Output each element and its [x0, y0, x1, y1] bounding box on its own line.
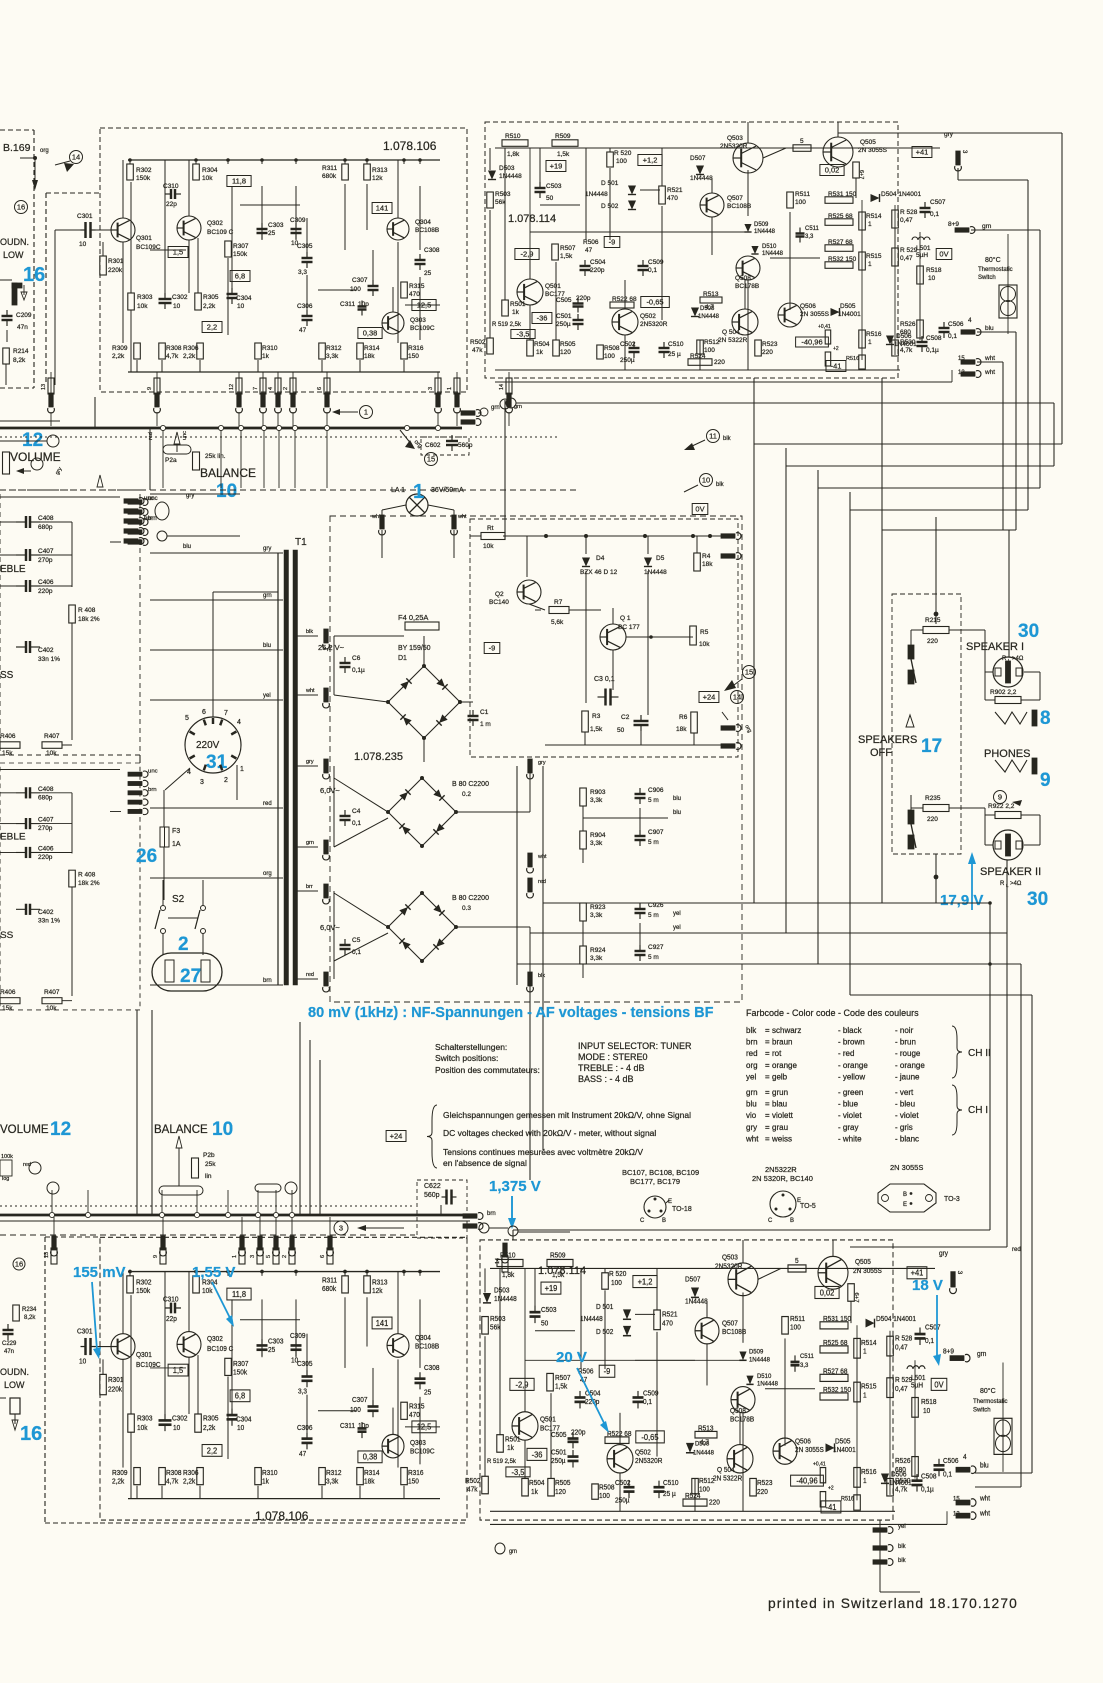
svg-text:R: R	[1000, 881, 1005, 887]
svg-text:R507: R507	[560, 245, 576, 252]
svg-text:250µ: 250µ	[551, 1458, 566, 1465]
svg-text:250µ: 250µ	[615, 1497, 630, 1504]
svg-text:C301: C301	[77, 213, 93, 220]
svg-text:R4: R4	[702, 553, 711, 560]
svg-text:C308: C308	[424, 1365, 440, 1372]
svg-text:grau: grau	[772, 1123, 788, 1132]
svg-text:- blanc: - blanc	[895, 1134, 919, 1143]
svg-text:2N 5322R: 2N 5322R	[713, 1475, 742, 1482]
svg-text:1: 1	[863, 1478, 867, 1485]
svg-text:- jaune: - jaune	[895, 1072, 920, 1081]
svg-text:C301: C301	[77, 1329, 93, 1336]
svg-text:VOLUME: VOLUME	[10, 450, 61, 464]
svg-text:Q 1: Q 1	[620, 615, 631, 622]
svg-text:R924: R924	[590, 947, 606, 954]
svg-text:8,2k: 8,2k	[24, 1315, 36, 1321]
svg-text:8,2k: 8,2k	[13, 357, 26, 364]
svg-text:C311: C311	[340, 1423, 355, 1430]
svg-text:+19: +19	[545, 1284, 558, 1293]
svg-text:15k: 15k	[2, 750, 13, 757]
svg-text:1,5: 1,5	[173, 248, 183, 257]
svg-text:150k: 150k	[136, 175, 151, 182]
svg-text:R 519 2,5k: R 519 2,5k	[492, 322, 522, 328]
svg-text:+0,41: +0,41	[818, 324, 831, 330]
svg-text:wht: wht	[745, 1134, 759, 1143]
svg-text:560p: 560p	[458, 442, 473, 449]
svg-text:0,47: 0,47	[895, 1386, 908, 1393]
svg-text:R516: R516	[846, 356, 859, 362]
svg-text:R922 2,2: R922 2,2	[988, 803, 1015, 810]
svg-text:red: red	[148, 432, 154, 440]
svg-text:BALANCE: BALANCE	[154, 1124, 208, 1136]
svg-text:C309: C309	[290, 217, 306, 224]
svg-text:1N4448: 1N4448	[580, 1316, 603, 1323]
svg-text:80 mV (1kHz) : NF-Spannungen -: 80 mV (1kHz) : NF-Spannungen - AF voltag…	[308, 1005, 714, 1021]
svg-text:50: 50	[541, 1320, 548, 1327]
svg-text:7: 7	[253, 387, 259, 390]
svg-text:Q505: Q505	[860, 139, 876, 146]
svg-text:2N5320R: 2N5320R	[640, 321, 668, 328]
svg-text:0,1: 0,1	[352, 820, 361, 827]
svg-text:-41: -41	[831, 362, 842, 371]
svg-text:blk: blk	[723, 436, 732, 442]
svg-text:2N 5320R, BC140: 2N 5320R, BC140	[752, 1174, 813, 1183]
svg-text:R308: R308	[166, 1470, 182, 1477]
svg-text:10: 10	[928, 275, 936, 282]
svg-text:1.078.114: 1.078.114	[508, 213, 556, 225]
svg-text:3,3k: 3,3k	[590, 912, 603, 919]
svg-text:47k: 47k	[467, 1486, 478, 1493]
svg-text:100: 100	[616, 158, 627, 165]
svg-text:0,1: 0,1	[948, 333, 957, 340]
svg-text:R507: R507	[555, 1375, 571, 1382]
svg-text:Q506: Q506	[800, 303, 816, 310]
svg-text:5: 5	[800, 138, 804, 145]
svg-text:R309: R309	[112, 345, 128, 352]
svg-text:R 408: R 408	[78, 607, 96, 614]
svg-text:C: C	[640, 1218, 645, 1224]
svg-text:unc: unc	[144, 496, 154, 502]
svg-text:C407: C407	[38, 817, 54, 824]
svg-text:5: 5	[266, 1255, 272, 1258]
svg-text:C602: C602	[425, 442, 441, 449]
svg-text:EBLE: EBLE	[0, 832, 26, 843]
svg-text:15: 15	[427, 455, 435, 464]
svg-text:16: 16	[23, 264, 45, 286]
svg-text:- green: - green	[838, 1088, 863, 1097]
svg-text:220: 220	[709, 1499, 720, 1506]
svg-text:270p: 270p	[38, 825, 53, 832]
svg-text:-36: -36	[532, 1450, 543, 1459]
svg-text:R527 68: R527 68	[828, 239, 853, 246]
svg-text:1N4448: 1N4448	[698, 314, 720, 320]
svg-text:C4: C4	[352, 808, 361, 815]
svg-text:1N4448: 1N4448	[693, 1449, 714, 1456]
svg-text:C510: C510	[663, 1480, 679, 1487]
svg-text:6,8: 6,8	[235, 1391, 245, 1400]
svg-text:1,5: 1,5	[173, 1366, 183, 1375]
svg-text:2N5320R: 2N5320R	[715, 1263, 742, 1270]
svg-text:OUDN.: OUDN.	[0, 1367, 29, 1377]
svg-text:B: B	[903, 1192, 907, 1198]
svg-text:10: 10	[237, 1425, 244, 1432]
svg-text:Q507: Q507	[727, 195, 743, 202]
svg-text:1k: 1k	[536, 349, 544, 356]
svg-text:15: 15	[745, 668, 753, 677]
svg-text:30: 30	[1018, 621, 1039, 642]
svg-text:R512: R512	[699, 1478, 715, 1485]
svg-text:R 520: R 520	[614, 150, 632, 157]
svg-text:3: 3	[956, 1271, 963, 1275]
svg-text:C306: C306	[297, 1425, 313, 1432]
svg-text:C503: C503	[541, 1307, 557, 1314]
svg-text:BASS : - 4 dB: BASS : - 4 dB	[578, 1074, 634, 1084]
svg-text:TO-18: TO-18	[672, 1206, 692, 1213]
svg-text:80°C: 80°C	[985, 256, 1001, 264]
svg-text:10: 10	[216, 481, 237, 502]
svg-text:Q505: Q505	[855, 1259, 871, 1266]
svg-text:C504: C504	[590, 259, 606, 266]
svg-text:grun: grun	[772, 1088, 788, 1097]
svg-text:2N5322R: 2N5322R	[765, 1165, 797, 1174]
svg-text:Q301: Q301	[136, 1352, 152, 1359]
svg-text:6: 6	[202, 709, 206, 716]
svg-text:BC109 C: BC109 C	[207, 229, 234, 236]
svg-text:R406: R406	[0, 733, 16, 740]
svg-text:C307: C307	[352, 277, 368, 284]
svg-text:18 V: 18 V	[912, 1277, 943, 1294]
svg-text:Q508: Q508	[730, 1408, 746, 1415]
svg-text:L501: L501	[916, 245, 931, 252]
svg-text:25 µ: 25 µ	[668, 351, 681, 358]
svg-text:3: 3	[339, 1224, 343, 1233]
svg-text:1,5k: 1,5k	[557, 151, 570, 158]
svg-text:20 V: 20 V	[556, 1349, 587, 1366]
svg-text:Q301: Q301	[136, 235, 152, 242]
svg-text:wht: wht	[984, 369, 995, 376]
svg-text:Q303: Q303	[410, 317, 426, 324]
svg-text:1k: 1k	[507, 1445, 514, 1452]
svg-text:4,7k: 4,7k	[166, 1478, 179, 1485]
svg-text:D504 1N4001: D504 1N4001	[881, 191, 921, 198]
svg-text:1: 1	[413, 481, 424, 503]
svg-text:BC108B: BC108B	[415, 227, 439, 234]
svg-text:R508: R508	[604, 345, 620, 352]
svg-text:26: 26	[136, 846, 157, 867]
svg-text:R526: R526	[895, 1458, 911, 1465]
svg-text:blk: blk	[306, 629, 313, 635]
svg-text:blk: blk	[716, 482, 725, 488]
svg-text:3,3k: 3,3k	[590, 840, 603, 847]
svg-text:SS: SS	[0, 670, 14, 681]
svg-text:13: 13	[953, 1510, 960, 1517]
svg-text:C3 0,1: C3 0,1	[594, 676, 615, 683]
svg-text:+1,2: +1,2	[643, 156, 658, 165]
svg-text:Q502: Q502	[640, 313, 656, 320]
svg-text:1: 1	[868, 339, 872, 346]
svg-text:12k: 12k	[372, 175, 383, 182]
svg-text:R 529: R 529	[895, 1377, 913, 1384]
svg-text:13: 13	[41, 384, 47, 390]
svg-text:150: 150	[408, 353, 419, 360]
svg-text:R513: R513	[698, 1425, 714, 1432]
svg-text:3,3: 3,3	[800, 1362, 809, 1369]
svg-text:1,8k: 1,8k	[502, 1272, 515, 1279]
svg-text:1N4448: 1N4448	[762, 251, 784, 257]
svg-text:12k: 12k	[372, 1288, 383, 1295]
svg-text:B 80 C2200: B 80 C2200	[452, 895, 489, 902]
svg-text:R6: R6	[679, 714, 688, 721]
svg-text:R312: R312	[326, 345, 342, 352]
svg-text:blu: blu	[183, 544, 191, 550]
svg-text:R307: R307	[233, 243, 249, 250]
svg-text:0,47: 0,47	[900, 217, 913, 224]
svg-text:C906: C906	[648, 787, 664, 794]
svg-text:10k: 10k	[202, 1288, 213, 1295]
svg-text:+24: +24	[703, 693, 716, 702]
svg-text:- vert: - vert	[895, 1088, 914, 1097]
svg-text:en l'absence de signal: en l'absence de signal	[443, 1158, 527, 1168]
svg-text:R 519 2,5k: R 519 2,5k	[487, 1458, 517, 1465]
svg-text:R 520: R 520	[609, 1271, 627, 1278]
svg-text:R506: R506	[583, 239, 599, 246]
svg-text:C309: C309	[290, 1333, 306, 1340]
svg-text:470: 470	[409, 1412, 420, 1419]
svg-text:- bleu: - bleu	[895, 1100, 915, 1109]
svg-text:1.078.106: 1.078.106	[383, 139, 437, 153]
svg-text:8+9: 8+9	[948, 221, 959, 228]
svg-text:11,8: 11,8	[232, 1290, 246, 1299]
svg-text:3,3: 3,3	[805, 234, 814, 240]
svg-text:R309: R309	[112, 1470, 128, 1477]
svg-text:27: 27	[180, 966, 201, 987]
svg-text:D507: D507	[685, 1276, 701, 1283]
svg-text:=: =	[765, 1100, 770, 1109]
svg-text:220: 220	[762, 349, 773, 356]
svg-text:100: 100	[704, 347, 715, 354]
svg-text:C303: C303	[268, 222, 284, 229]
svg-text:1k: 1k	[262, 1478, 269, 1485]
svg-text:2: 2	[282, 1255, 288, 1258]
svg-text:DC voltages checked with 2: DC voltages checked with 20kΩ/V - meter,…	[443, 1128, 656, 1138]
svg-text:BC 177: BC 177	[618, 624, 640, 631]
svg-text:BC109 C: BC109 C	[207, 1346, 233, 1353]
svg-text:80°C: 80°C	[980, 1386, 996, 1395]
svg-text:- noir: - noir	[895, 1026, 914, 1035]
svg-text:25k: 25k	[205, 1161, 216, 1168]
svg-text:D1: D1	[398, 655, 407, 662]
svg-text:R532 150: R532 150	[828, 256, 857, 263]
svg-text:- brown: - brown	[838, 1038, 865, 1047]
svg-text:R305: R305	[203, 1415, 219, 1422]
svg-text:blk: blk	[898, 1544, 907, 1550]
svg-text:141: 141	[376, 204, 389, 213]
svg-text:R504: R504	[534, 341, 550, 348]
svg-text:1: 1	[868, 261, 872, 268]
svg-text:4,7: 4,7	[700, 1439, 709, 1446]
svg-text:F4 0,25A: F4 0,25A	[398, 613, 428, 622]
svg-text:R501: R501	[505, 1436, 521, 1443]
svg-text:R306: R306	[183, 345, 199, 352]
svg-text:C229: C229	[2, 1341, 17, 1347]
svg-text:1k: 1k	[262, 353, 270, 360]
svg-text:R532 150: R532 150	[823, 1387, 851, 1394]
svg-text:C506: C506	[943, 1458, 959, 1465]
svg-text:50: 50	[617, 727, 625, 734]
svg-text:R310: R310	[262, 1470, 278, 1477]
svg-text:brn: brn	[263, 978, 272, 984]
svg-text:R304: R304	[202, 167, 218, 174]
svg-text:12: 12	[50, 1119, 71, 1140]
svg-text:5: 5	[185, 715, 189, 722]
svg-text:Q507: Q507	[722, 1320, 738, 1327]
svg-text:R526: R526	[900, 321, 916, 328]
svg-text:R305: R305	[203, 294, 219, 301]
svg-text:+2: +2	[833, 346, 839, 352]
svg-text:R903: R903	[590, 789, 606, 796]
svg-text:B: B	[790, 1218, 794, 1224]
svg-text:Q503: Q503	[722, 1254, 738, 1261]
svg-text:R502: R502	[470, 339, 486, 346]
svg-text:R501: R501	[510, 301, 526, 308]
svg-text:T1: T1	[295, 537, 307, 548]
svg-text:4: 4	[963, 1454, 967, 1461]
svg-text:log: log	[2, 1176, 9, 1182]
svg-text:1N4448: 1N4448	[499, 173, 522, 180]
svg-text:100k: 100k	[1, 1154, 13, 1160]
svg-text:Q302: Q302	[207, 1336, 223, 1343]
svg-text:=: =	[765, 1123, 770, 1132]
svg-text:- rouge: - rouge	[895, 1049, 921, 1058]
svg-text:R523: R523	[762, 341, 778, 348]
svg-text:1k: 1k	[531, 1489, 538, 1496]
svg-text:47n: 47n	[4, 1349, 14, 1355]
svg-text:0,38: 0,38	[363, 329, 378, 338]
svg-text:250µ: 250µ	[620, 357, 635, 364]
svg-text:220p: 220p	[590, 267, 605, 274]
svg-text:R511: R511	[790, 1316, 805, 1323]
svg-text:BC177, BC179: BC177, BC179	[630, 1177, 680, 1186]
svg-text:120: 120	[555, 1489, 566, 1496]
svg-text:0V: 0V	[939, 250, 948, 259]
svg-text:30: 30	[1027, 889, 1048, 910]
svg-text:0,47: 0,47	[900, 255, 913, 262]
svg-text:5,6k: 5,6k	[551, 619, 564, 626]
svg-text:grn: grn	[509, 1549, 517, 1555]
svg-text:2N 3055S: 2N 3055S	[800, 311, 830, 318]
svg-text:220: 220	[927, 816, 938, 823]
svg-text:+2: +2	[828, 1485, 834, 1491]
svg-text:10: 10	[79, 1358, 86, 1365]
svg-text:1N4001: 1N4001	[833, 1447, 856, 1454]
svg-text:gry: gry	[538, 760, 546, 766]
svg-text:100: 100	[604, 353, 615, 360]
svg-text:150k: 150k	[233, 1369, 248, 1376]
svg-text:R518: R518	[921, 1399, 937, 1406]
svg-text:680k: 680k	[322, 1286, 337, 1293]
svg-text:8+9: 8+9	[943, 1349, 954, 1356]
svg-text:P2a: P2a	[165, 457, 177, 464]
svg-text:C406: C406	[38, 579, 54, 586]
svg-text:- orange: - orange	[838, 1061, 868, 1070]
svg-text:blau: blau	[772, 1100, 787, 1109]
svg-text:6+7: 6+7	[853, 1292, 859, 1302]
svg-text:33n 1%: 33n 1%	[38, 918, 60, 925]
svg-text:C907: C907	[648, 829, 664, 836]
svg-text:R315: R315	[409, 1403, 425, 1410]
svg-text:C407: C407	[38, 548, 54, 555]
svg-text:R516: R516	[861, 1469, 877, 1476]
svg-text:R316: R316	[408, 345, 424, 352]
svg-text:C5: C5	[352, 937, 361, 944]
svg-text:-40,96: -40,96	[801, 338, 822, 347]
svg-text:R407: R407	[44, 989, 60, 996]
svg-text:BC109C: BC109C	[410, 325, 435, 332]
svg-text:1N4448: 1N4448	[749, 1356, 770, 1363]
svg-text:220: 220	[927, 638, 938, 645]
svg-text:17: 17	[921, 736, 942, 757]
svg-text:C302: C302	[172, 294, 188, 301]
svg-text:1A: 1A	[172, 841, 181, 848]
svg-text:17,9 V: 17,9 V	[940, 892, 983, 909]
svg-text:47: 47	[299, 1451, 306, 1458]
svg-text:680p: 680p	[38, 524, 53, 531]
svg-text:C505: C505	[556, 297, 572, 304]
svg-text:C622: C622	[424, 1183, 441, 1190]
svg-text:18k: 18k	[364, 1478, 375, 1485]
svg-text:- blue: - blue	[838, 1100, 859, 1109]
svg-text:0,1: 0,1	[925, 1338, 934, 1345]
svg-text:100: 100	[699, 1486, 710, 1493]
svg-text:11,8: 11,8	[232, 177, 246, 186]
svg-text:2N 3055S: 2N 3055S	[853, 1268, 882, 1275]
svg-text:R902 2,2: R902 2,2	[990, 689, 1017, 696]
svg-text:25: 25	[268, 230, 276, 237]
svg-text:R306: R306	[183, 1470, 199, 1477]
svg-text:R302: R302	[136, 167, 152, 174]
svg-text:-40,96: -40,96	[796, 1476, 818, 1485]
svg-text:56k: 56k	[490, 1324, 501, 1331]
svg-text:0,1µ: 0,1µ	[921, 1486, 934, 1493]
svg-text:wht: wht	[457, 514, 467, 520]
svg-text:2,2k: 2,2k	[203, 1425, 216, 1432]
svg-text:4,7k: 4,7k	[166, 353, 179, 360]
svg-text:unc: unc	[148, 768, 158, 774]
svg-text:15k: 15k	[2, 1005, 13, 1012]
svg-text:3,3: 3,3	[298, 1388, 307, 1395]
svg-text:blu: blu	[746, 1100, 757, 1109]
svg-text:R527 68: R527 68	[823, 1368, 848, 1375]
svg-text:16: 16	[17, 203, 25, 212]
svg-text:R314: R314	[364, 345, 380, 352]
svg-text:R215: R215	[925, 617, 941, 624]
svg-text:R521: R521	[662, 1311, 678, 1318]
svg-text:BC108B: BC108B	[415, 1344, 440, 1351]
svg-text:- black: - black	[838, 1026, 863, 1035]
svg-text:brn: brn	[144, 516, 153, 522]
svg-text:10p: 10p	[358, 1423, 369, 1430]
svg-text:1,5k: 1,5k	[590, 726, 603, 733]
svg-text:brn: brn	[746, 1038, 758, 1047]
svg-text:org: org	[263, 871, 272, 877]
svg-text:-2,9: -2,9	[521, 250, 534, 259]
svg-text:1: 1	[863, 1349, 867, 1356]
svg-text:2N5320R: 2N5320R	[635, 1458, 662, 1465]
svg-text:13: 13	[958, 370, 965, 376]
svg-text:-41: -41	[826, 1503, 837, 1512]
svg-text:R 528: R 528	[895, 1335, 913, 1342]
svg-text:=: =	[765, 1061, 770, 1070]
